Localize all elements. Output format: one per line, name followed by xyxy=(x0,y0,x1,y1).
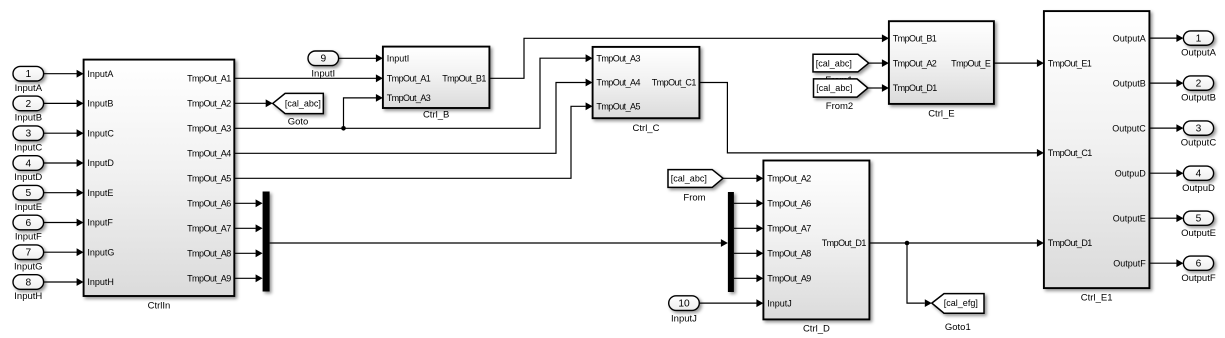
wire Mux to Demux xyxy=(270,242,721,244)
svg-text:InputA: InputA xyxy=(87,69,113,79)
svg-text:TmpOut_A6: TmpOut_A6 xyxy=(187,199,231,209)
svg-text:InputD: InputD xyxy=(87,158,114,168)
svg-text:OutputA: OutputA xyxy=(1181,48,1217,59)
wire OutputB to Out2 xyxy=(1149,82,1176,84)
svg-text:OutputA: OutputA xyxy=(1113,33,1146,43)
goto tag Goto [cal_abc] xyxy=(273,93,324,113)
wire OutputC to Out3 xyxy=(1149,127,1176,129)
wire In5 to CtrlIn xyxy=(44,192,77,194)
wire Demux to Ctrl_D TmpOut_A6 xyxy=(734,202,757,204)
svg-text:3: 3 xyxy=(25,129,31,140)
svg-text:TmpOut_A8: TmpOut_A8 xyxy=(187,249,231,259)
wire In7 to CtrlIn xyxy=(44,251,77,253)
svg-text:TmpOut_A3: TmpOut_A3 xyxy=(596,53,640,63)
wire In10 to Ctrl_D xyxy=(699,302,756,304)
svg-text:InputI: InputI xyxy=(387,53,410,63)
goto tag Goto1 [cal_efg] xyxy=(932,294,984,314)
svg-text:4: 4 xyxy=(1196,169,1202,180)
wire branch TmpOut_A3 to Ctrl_B xyxy=(344,98,377,128)
svg-text:5: 5 xyxy=(1196,214,1202,225)
svg-text:TmpOut_A7: TmpOut_A7 xyxy=(187,224,231,234)
svg-text:InputF: InputF xyxy=(15,232,42,243)
wire In6 to CtrlIn xyxy=(44,222,77,224)
input port 7 (In7) xyxy=(13,245,44,260)
svg-text:5: 5 xyxy=(25,188,31,199)
svg-text:OutputB: OutputB xyxy=(1113,78,1146,88)
wire TmpOut_D1 to Ctrl_E1 xyxy=(869,242,1037,244)
from tag From1 [cal_abc] xyxy=(813,54,869,72)
svg-text:TmpOut_C1: TmpOut_C1 xyxy=(652,78,697,88)
svg-text:TmpOut_A3: TmpOut_A3 xyxy=(187,124,231,134)
svg-text:Ctrl_B: Ctrl_B xyxy=(423,109,449,120)
svg-text:[cal_abc]: [cal_abc] xyxy=(816,58,852,68)
input port 8 (In8) xyxy=(13,275,44,290)
wire OutputF to Out6 xyxy=(1149,262,1176,264)
svg-text:InputA: InputA xyxy=(15,83,43,94)
svg-text:InputD: InputD xyxy=(14,172,42,183)
svg-text:6: 6 xyxy=(1196,259,1202,270)
svg-text:4: 4 xyxy=(25,158,31,169)
wire In2 to CtrlIn xyxy=(44,102,77,104)
wire TmpOut_A3 to Ctrl_C xyxy=(234,58,586,128)
svg-text:TmpOut_A6: TmpOut_A6 xyxy=(767,199,811,209)
svg-text:InputC: InputC xyxy=(87,128,114,138)
subsystem Ctrl_D xyxy=(763,161,869,320)
input port 9 (In9) xyxy=(308,51,339,66)
svg-text:TmpOut_D1: TmpOut_D1 xyxy=(893,83,938,93)
svg-text:TmpOut_A1: TmpOut_A1 xyxy=(387,74,431,84)
wire TmpOut_A6 to Mux xyxy=(234,202,256,204)
wire OutputE to Out5 xyxy=(1149,217,1176,219)
svg-text:[cal_abc]: [cal_abc] xyxy=(285,98,321,108)
input port 5 (In5) xyxy=(13,185,44,200)
svg-text:TmpOut_B1: TmpOut_B1 xyxy=(442,74,486,84)
svg-text:TmpOut_A2: TmpOut_A2 xyxy=(893,58,937,68)
svg-text:TmpOut_E: TmpOut_E xyxy=(951,58,991,68)
output port 6 (Out6) xyxy=(1183,256,1213,270)
svg-text:From2: From2 xyxy=(826,101,853,112)
subsystem Ctrl_C xyxy=(593,47,700,118)
svg-text:OutputE: OutputE xyxy=(1113,213,1146,223)
output port 1 (Out1) xyxy=(1183,31,1213,45)
wire In8 to CtrlIn xyxy=(44,281,77,283)
from tag From2 [cal_abc] xyxy=(814,79,868,97)
wire TmpOut_A2 to Goto xyxy=(234,102,266,104)
svg-text:InputF: InputF xyxy=(87,218,113,228)
svg-text:2: 2 xyxy=(25,99,31,110)
junction TmpOut_D1 xyxy=(905,241,910,246)
svg-text:[cal_abc]: [cal_abc] xyxy=(671,174,707,184)
wire In9 to Ctrl_B xyxy=(339,57,377,59)
svg-text:TmpOut_A4: TmpOut_A4 xyxy=(187,149,231,159)
svg-text:OutputC: OutputC xyxy=(1181,138,1217,149)
from tag From [cal_abc] xyxy=(668,170,723,188)
wire Demux to Ctrl_D TmpOut_A7 xyxy=(734,227,757,229)
svg-text:TmpOut_A5: TmpOut_A5 xyxy=(596,102,640,112)
svg-text:TmpOut_D1: TmpOut_D1 xyxy=(822,238,867,248)
svg-text:Ctrl_E1: Ctrl_E1 xyxy=(1081,293,1113,304)
svg-text:InputH: InputH xyxy=(87,277,114,287)
svg-text:InputB: InputB xyxy=(87,99,113,109)
wire From1 to Ctrl_E xyxy=(869,62,882,64)
wire OutpuD to Out4 xyxy=(1149,172,1176,174)
svg-text:OutpuD: OutpuD xyxy=(1182,183,1215,194)
subsystem Ctrl_E1 xyxy=(1044,11,1150,288)
svg-text:OutpuD: OutpuD xyxy=(1115,168,1147,178)
svg-text:InputG: InputG xyxy=(87,247,114,257)
wire Demux to Ctrl_D TmpOut_A8 xyxy=(734,252,757,254)
svg-text:7: 7 xyxy=(25,248,31,259)
svg-text:[cal_efg]: [cal_efg] xyxy=(944,298,978,308)
svg-text:InputI: InputI xyxy=(311,68,335,79)
svg-text:CtrlIn: CtrlIn xyxy=(148,301,171,312)
svg-text:TmpOut_B1: TmpOut_B1 xyxy=(893,34,937,44)
svg-text:9: 9 xyxy=(320,54,326,65)
svg-text:OutputF: OutputF xyxy=(1113,258,1146,268)
wire Demux to Ctrl_D TmpOut_A9 xyxy=(734,277,757,279)
input port 2 (In2) xyxy=(13,96,44,111)
svg-text:InputC: InputC xyxy=(14,142,42,153)
svg-text:10: 10 xyxy=(678,299,690,310)
svg-text:1: 1 xyxy=(25,69,31,80)
svg-text:TmpOut_A7: TmpOut_A7 xyxy=(767,224,811,234)
svg-text:TmpOut_C1: TmpOut_C1 xyxy=(1048,148,1093,158)
wire TmpOut_B1 to Ctrl_E xyxy=(489,38,882,78)
svg-text:InputG: InputG xyxy=(14,261,43,272)
svg-text:OutputE: OutputE xyxy=(1181,228,1216,239)
svg-text:Goto: Goto xyxy=(288,116,309,127)
input port 1 (In1) xyxy=(13,66,44,81)
wire TmpOut_E to Ctrl_E1 xyxy=(994,62,1037,64)
svg-text:2: 2 xyxy=(1196,79,1202,90)
subsystem Ctrl_B xyxy=(383,47,490,108)
svg-text:TmpOut_E1: TmpOut_E1 xyxy=(1048,58,1092,68)
svg-text:TmpOut_A5: TmpOut_A5 xyxy=(187,174,231,184)
svg-text:TmpOut_A2: TmpOut_A2 xyxy=(187,99,231,109)
wire TmpOut_A7 to Mux xyxy=(234,227,256,229)
svg-text:Ctrl_E: Ctrl_E xyxy=(928,109,954,120)
wire From to Ctrl_D xyxy=(723,177,757,179)
svg-text:3: 3 xyxy=(1196,124,1202,135)
svg-text:1: 1 xyxy=(1196,34,1202,45)
subsystem CtrlIn xyxy=(84,60,235,296)
output port 2 (Out2) xyxy=(1183,76,1213,90)
wire branch TmpOut_D1 to Goto1 xyxy=(907,243,925,303)
svg-text:TmpOut_A4: TmpOut_A4 xyxy=(596,78,640,88)
mux Mux xyxy=(263,192,270,292)
wire TmpOut_A5 to Ctrl_C xyxy=(234,106,586,178)
svg-text:InputB: InputB xyxy=(15,113,42,124)
svg-text:6: 6 xyxy=(25,218,31,229)
svg-text:TmpOut_A2: TmpOut_A2 xyxy=(767,174,811,184)
output port 3 (Out3) xyxy=(1183,121,1213,135)
svg-text:TmpOut_D1: TmpOut_D1 xyxy=(1048,238,1093,248)
input port 10 (In10) xyxy=(669,296,700,311)
svg-text:TmpOut_A9: TmpOut_A9 xyxy=(187,274,231,284)
svg-text:OutputF: OutputF xyxy=(1181,273,1216,284)
output port 5 (Out5) xyxy=(1183,211,1213,225)
wire OutputA to Out1 xyxy=(1149,37,1176,39)
svg-text:InputE: InputE xyxy=(87,188,113,198)
input port 6 (In6) xyxy=(13,215,44,230)
svg-text:From: From xyxy=(683,192,705,203)
svg-text:OutputC: OutputC xyxy=(1112,123,1146,133)
wire From2 to Ctrl_E xyxy=(868,87,882,89)
wire TmpOut_A4 to Ctrl_C xyxy=(234,83,586,154)
wire TmpOut_A9 to Mux xyxy=(234,277,256,279)
wire TmpOut_A8 to Mux xyxy=(234,252,256,254)
svg-text:Ctrl_D: Ctrl_D xyxy=(803,324,830,335)
svg-text:InputJ: InputJ xyxy=(767,298,792,308)
svg-text:Ctrl_C: Ctrl_C xyxy=(633,123,660,134)
demux Demux xyxy=(728,192,734,292)
svg-text:TmpOut_A3: TmpOut_A3 xyxy=(387,93,431,103)
svg-text:Goto1: Goto1 xyxy=(945,322,971,333)
wire TmpOut_A1 to Ctrl_B xyxy=(234,77,376,79)
input port 4 (In4) xyxy=(13,156,44,171)
wire In4 to CtrlIn xyxy=(44,162,77,164)
svg-text:InputJ: InputJ xyxy=(671,314,697,325)
svg-text:8: 8 xyxy=(25,277,31,288)
svg-text:OutputB: OutputB xyxy=(1181,93,1216,104)
svg-text:TmpOut_A8: TmpOut_A8 xyxy=(767,249,811,259)
svg-text:[cal_abc]: [cal_abc] xyxy=(816,83,852,93)
input port 3 (In3) xyxy=(13,126,44,141)
wire In1 to CtrlIn xyxy=(44,73,77,75)
wire In3 to CtrlIn xyxy=(44,132,77,134)
svg-text:InputE: InputE xyxy=(15,202,42,213)
svg-text:TmpOut_A1: TmpOut_A1 xyxy=(187,74,231,84)
svg-text:TmpOut_A9: TmpOut_A9 xyxy=(767,274,811,284)
junction TmpOut_A3 xyxy=(341,126,346,131)
wire TmpOut_C1 to Ctrl_E1 xyxy=(699,83,1037,153)
output port 4 (Out4) xyxy=(1183,166,1213,180)
svg-text:InputH: InputH xyxy=(14,291,42,302)
subsystem Ctrl_E xyxy=(889,21,994,104)
